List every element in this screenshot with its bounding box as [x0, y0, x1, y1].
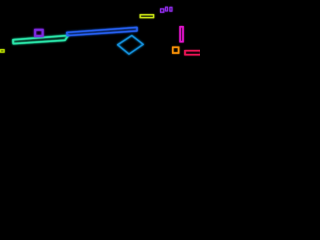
- orange square: [173, 47, 179, 53]
- small purple rect 3: [170, 7, 172, 11]
- crimson rect (cut off at right edge): [185, 51, 201, 55]
- teal platform: [13, 36, 68, 44]
- magenta vertical rect: [180, 27, 183, 42]
- small yellow-green rect bottom-left: [0, 50, 4, 52]
- blue platform: [67, 27, 137, 35]
- blue parallelogram: [118, 36, 144, 55]
- small purple square 1: [161, 9, 164, 12]
- small purple rect 2: [166, 7, 168, 11]
- purple square on teal platform: [35, 30, 43, 36]
- yellow-green bar platform: [140, 15, 153, 18]
